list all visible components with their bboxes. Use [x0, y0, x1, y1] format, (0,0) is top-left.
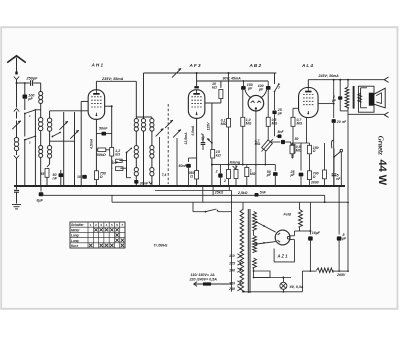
- volume potentiometer 4.7M: [262, 140, 273, 151]
- mains switch: [193, 211, 206, 213]
- svg-text:220 /240V= 0,5A: 220 /240V= 0,5A: [189, 278, 218, 282]
- wire cathode tee: [292, 142, 310, 144]
- node: [35, 185, 37, 187]
- tone bracket: [233, 166, 238, 169]
- output transformer primary: [347, 80, 349, 87]
- svg-text:8µF: 8µF: [37, 199, 44, 203]
- svg-text:Schalter: Schalter: [71, 223, 84, 227]
- power transformer heater winding: [253, 258, 257, 268]
- wire oscillator top link: [50, 140, 75, 142]
- tube AF3: [188, 90, 205, 119]
- svg-text:2: 2: [215, 170, 218, 174]
- switch mains/tone hook: [331, 140, 333, 148]
- svg-text:Feld: Feld: [284, 213, 292, 217]
- svg-text:235V; 35mA: 235V; 35mA: [101, 77, 124, 81]
- capacitor 50nF blob: [59, 173, 64, 177]
- svg-text:µF: µF: [266, 173, 272, 177]
- antenna: [7, 56, 26, 63]
- svg-text:110/ 150V= 1A: 110/ 150V= 1A: [191, 273, 215, 277]
- capacitor 5nF tone: [332, 173, 337, 175]
- wire AH1 grid return: [81, 100, 88, 102]
- wire top bus 73: [144, 72, 277, 74]
- wire AF3 cathode: [196, 118, 198, 158]
- svg-text:Lang: Lang: [71, 234, 79, 238]
- svg-text:MΩ: MΩ: [250, 172, 256, 176]
- wire AF3 anode right: [205, 102, 212, 104]
- wire HT diagonal to AZ1 anode b: [257, 242, 276, 244]
- resistor tone right: [323, 170, 327, 179]
- capacitor 150pF: [242, 81, 244, 86]
- resistor 12k: [110, 148, 114, 157]
- wire antenna lead-in: [16, 58, 18, 72]
- svg-text:2: 2: [28, 140, 31, 144]
- wire transformer bottom: [242, 290, 244, 293]
- resistor 700 ohm: [308, 171, 312, 180]
- wire primary bottom down: [347, 108, 349, 115]
- resistor 55: [45, 169, 49, 178]
- svg-text:MΩ: MΩ: [297, 122, 303, 126]
- wire AZ1 filament right pair: [290, 235, 295, 237]
- svg-text:A B 2: A B 2: [249, 63, 262, 68]
- svg-text:5nF: 5nF: [112, 161, 119, 165]
- capacitor 5nF: [278, 134, 282, 138]
- resistor 5k horizontal: [115, 167, 123, 171]
- wire heater line y195: [41, 194, 325, 196]
- svg-text:Ω: Ω: [99, 175, 103, 179]
- svg-text:Kurz: Kurz: [71, 244, 78, 248]
- connector arrow lower right: [384, 112, 388, 117]
- capacitor blob 50nF osc: [82, 175, 87, 179]
- resistor 1M: [245, 167, 249, 176]
- oscillator coil L3b: [48, 146, 52, 150]
- wire ground cap: [16, 186, 18, 190]
- svg-text:90V; 45mA: 90V; 45mA: [223, 77, 242, 81]
- svg-text:50nF: 50nF: [99, 126, 108, 130]
- wire antenna coil to chassis bus: [40, 158, 42, 187]
- wire pot bottom: [264, 152, 266, 165]
- svg-text:Ω: Ω: [312, 175, 316, 179]
- connector arrow top right: [384, 77, 388, 82]
- trimmer on top bus: [172, 68, 181, 77]
- IFT1 third winding: [150, 119, 154, 123]
- svg-text:265V: 265V: [336, 273, 346, 277]
- svg-text:250pF: 250pF: [26, 77, 39, 81]
- resistor 150 ohm: [308, 145, 312, 154]
- svg-text:nF: nF: [53, 176, 58, 180]
- svg-text:150: 150: [229, 268, 235, 272]
- wire bottom B+ line: [302, 270, 316, 272]
- svg-text:A L 4: A L 4: [301, 63, 313, 68]
- switch table: [70, 222, 125, 248]
- svg-text:Klang: Klang: [230, 160, 241, 164]
- resistor 0.5M: [267, 88, 269, 117]
- svg-text:10: 10: [77, 175, 81, 179]
- wire heater stub a: [202, 186, 204, 202]
- svg-text:kΩ: kΩ: [216, 154, 221, 158]
- capacitor 5nF: [116, 159, 123, 162]
- svg-text:Ω: Ω: [189, 174, 193, 178]
- wire tuning cap 2: [74, 112, 76, 186]
- wire heater loop: [254, 271, 270, 278]
- wire AZ1 heater to lamp line: [253, 268, 255, 271]
- IF transformer IFT1 secondary: [141, 119, 145, 123]
- antenna coil L1 low: [39, 146, 43, 150]
- resistor 0.5M grid: [291, 144, 295, 153]
- capacitor 16uF: [309, 202, 311, 234]
- transformer core lines: [247, 209, 249, 293]
- wire AL4 cathode: [306, 118, 308, 144]
- taps with arrows: [237, 254, 241, 258]
- trimmer IFT1 a: [156, 129, 164, 137]
- svg-text:12,5mA: 12,5mA: [184, 132, 188, 145]
- fuse: [194, 282, 198, 286]
- wire AH1 anode to supply: [95, 81, 97, 90]
- svg-text:16µF: 16µF: [312, 231, 321, 235]
- wire grid leak return: [292, 157, 293, 159]
- resistor 50k horizontal: [98, 148, 106, 152]
- resistor 750 ohm: [94, 171, 98, 180]
- svg-text:5nF: 5nF: [260, 191, 267, 195]
- capacitor 50uF cathode: [274, 165, 276, 171]
- wire: [40, 104, 42, 118]
- wire AL4 screen to right: [318, 103, 334, 105]
- capacitor 8uF electrolytic: [40, 186, 42, 192]
- capacitor 2uF line: [339, 80, 341, 96]
- svg-text:50kΩ: 50kΩ: [97, 153, 106, 157]
- coil L2: [14, 138, 18, 142]
- svg-text:50nF: 50nF: [179, 164, 188, 168]
- svg-text:5nF: 5nF: [278, 130, 285, 134]
- svg-text:MΩ: MΩ: [246, 122, 252, 126]
- svg-text:MΩ: MΩ: [255, 142, 261, 146]
- svg-text:pF: pF: [258, 88, 264, 92]
- variable inductor arrow: [12, 121, 20, 129]
- tube AZ1 rectifier: [275, 230, 290, 245]
- resistor 50 ohm: [291, 143, 293, 145]
- IF switch lever: [127, 148, 132, 152]
- svg-text:µF: µF: [341, 236, 347, 240]
- svg-text:110: 110: [229, 254, 235, 258]
- wire filament return hook: [294, 240, 296, 262]
- wire heater stub b: [212, 186, 214, 195]
- gang dashed link: [167, 104, 169, 184]
- svg-text:2: 2: [223, 179, 226, 183]
- tube AB2 duo-diode: [248, 95, 264, 111]
- resistor 1.0M: [242, 90, 244, 118]
- svg-text:7,4: 7,4: [162, 173, 167, 177]
- svg-text:pF: pF: [277, 111, 283, 115]
- wire AB2 cathode down: [255, 108, 257, 186]
- wire AL4 grid: [293, 107, 299, 109]
- capacitor 5nF heater: [255, 193, 259, 197]
- wire IFT1 secondary to top bus: [143, 116, 145, 118]
- svg-text:Mittel: Mittel: [71, 228, 79, 232]
- capacitor 25pF: [272, 110, 276, 114]
- resistor tone 2: [227, 170, 231, 179]
- wire AF3 top to screen resistor: [197, 80, 221, 82]
- ground: [12, 204, 21, 206]
- capacitor 50nF at AH1 cathode: [102, 132, 107, 136]
- svg-text:20: 20: [336, 120, 341, 124]
- svg-text:2000: 2000: [310, 181, 319, 185]
- svg-text:Ω: Ω: [312, 149, 316, 153]
- resistor 15k on anode line: [211, 150, 215, 159]
- resistor 10k to bus: [219, 90, 223, 99]
- capacitor tone blob: [218, 173, 222, 177]
- node antenna junction: [16, 82, 18, 84]
- svg-text:A F 3: A F 3: [189, 63, 202, 68]
- wire tuning cap 1: [63, 112, 65, 171]
- power transformer HT secondary: [253, 212, 257, 231]
- tone rail: [212, 164, 275, 166]
- wire rail to B+ corner: [301, 271, 303, 292]
- svg-text:A H 1: A H 1: [91, 62, 104, 67]
- capacitor 100pF: [267, 81, 269, 86]
- resistor 265V horizontal zigzag: [317, 268, 334, 273]
- AVC tap arrow: [211, 142, 213, 144]
- wire HT diagonal to AZ1 anode a: [257, 222, 276, 232]
- chassis ground bus: [14, 185, 345, 187]
- wire wiper to AL4 grid: [271, 141, 281, 143]
- svg-text:kΩ: kΩ: [212, 86, 217, 90]
- svg-text:Graetz: Graetz: [377, 136, 385, 155]
- svg-text:30nF: 30nF: [140, 182, 149, 186]
- svg-text:µF: µF: [290, 173, 296, 177]
- tube AH1: [88, 90, 105, 120]
- antenna coil L1 mid: [39, 118, 43, 122]
- svg-text:Tr./50Hz: Tr./50Hz: [154, 244, 168, 248]
- svg-text:pF: pF: [247, 86, 253, 90]
- wire heater stub c: [228, 186, 230, 191]
- oscillator coil L3: [47, 118, 51, 122]
- capacitor 250pF: [30, 80, 32, 86]
- wire AH1 cathode: [95, 119, 97, 171]
- tuning capacitor arrow 1: [59, 121, 67, 129]
- wire field to B+: [294, 231, 296, 236]
- wire to coupling capacitor: [17, 82, 30, 84]
- svg-text:240: 240: [228, 287, 235, 291]
- svg-text:pF: pF: [27, 97, 33, 101]
- wire heater line y202: [112, 201, 348, 203]
- resistor tone 3: [234, 170, 238, 179]
- svg-text:kΩ: kΩ: [115, 152, 120, 156]
- node: [347, 201, 349, 203]
- capacitor 50nF AF3 cathode: [189, 157, 197, 159]
- wire: [40, 131, 42, 146]
- speaker: [358, 86, 374, 112]
- switch det: [274, 73, 276, 84]
- capacitor 8uF right: [338, 186, 340, 235]
- band switch contact a: [25, 110, 36, 114]
- power transformer primary winding: [240, 210, 244, 292]
- wire pot top: [267, 126, 269, 140]
- svg-text:245V; 36mA: 245V; 36mA: [318, 74, 340, 78]
- wire AL4 anode to HT bus: [307, 80, 309, 88]
- wire grid cap drop AF3: [196, 72, 198, 74]
- wire left branch down: [16, 83, 18, 108]
- wire: [16, 151, 18, 155]
- antenna coil L1 top: [39, 92, 43, 96]
- svg-text:A Z 1: A Z 1: [277, 254, 289, 259]
- node AL4 cathode bus: [309, 185, 311, 187]
- wire IF switch line: [126, 153, 128, 178]
- resistor 0.7M: [291, 117, 295, 126]
- svg-text:4,5mA: 4,5mA: [90, 138, 94, 150]
- wire transformer return down: [347, 114, 349, 201]
- wire switch common: [34, 110, 36, 136]
- wire capacitor to antenna coil: [34, 82, 41, 84]
- resistor 0.1M: [227, 119, 231, 128]
- wire: [49, 158, 51, 164]
- wire screen feed from bus: [228, 72, 230, 74]
- capacitor 20nF line: [333, 80, 335, 118]
- svg-text:0,5mA: 0,5mA: [191, 125, 195, 135]
- IF transformer IFT1 primary: [134, 119, 138, 123]
- svg-text:115V: 115V: [206, 122, 210, 131]
- trimmer IFT1 b: [165, 120, 173, 128]
- svg-text:MΩ: MΩ: [221, 122, 227, 126]
- tube AL4: [299, 88, 319, 118]
- wire secondary to connector: [348, 113, 384, 115]
- band switch contact b: [25, 136, 36, 140]
- trimmer IFT1 c: [173, 130, 181, 138]
- wire AVC line y81 to 100pF corner: [221, 80, 268, 82]
- wire switch down: [340, 152, 342, 186]
- wire heater line y190.8: [155, 190, 232, 192]
- svg-text:125: 125: [229, 261, 236, 265]
- svg-text:Lang: Lang: [71, 239, 79, 243]
- svg-text:6V, 0,3A: 6V, 0,3A: [290, 285, 304, 289]
- svg-text:2,5kΩ: 2,5kΩ: [237, 191, 248, 195]
- switch osc: [52, 132, 60, 136]
- wire heater rail bottom: [243, 291, 302, 293]
- wire: [49, 131, 51, 145]
- wire AH1 screen right: [105, 105, 112, 107]
- dial lamp: [282, 278, 284, 283]
- tuning capacitor arrow 2: [70, 130, 78, 138]
- capacitor 100pF branch: [24, 83, 26, 95]
- capacitor 30nF at bus: [134, 180, 138, 184]
- capacitor 50uF plate: [201, 142, 206, 144]
- wire grid line to AH1: [50, 110, 89, 112]
- table X marks: [94, 228, 97, 231]
- capacitor 25uF: [300, 143, 302, 171]
- wire field to 16uF node: [300, 230, 311, 232]
- svg-text:44 W: 44 W: [376, 160, 388, 186]
- transformer core: [353, 86, 355, 109]
- svg-text:50: 50: [295, 137, 299, 141]
- wire: [46, 177, 48, 186]
- wire AVC line: [159, 137, 161, 186]
- resistor 350 ohm: [195, 171, 199, 180]
- svg-text:25kΩ: 25kΩ: [214, 191, 224, 195]
